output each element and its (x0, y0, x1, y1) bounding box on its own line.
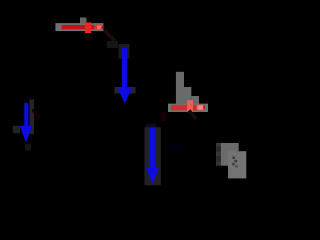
bond C3-H vertical white stick (176, 72, 184, 105)
dipole arrow D4 cross tail (187, 100, 193, 112)
dipole arrow D4 head (197, 105, 205, 111)
bond C1-C2 top horizontal white stick (55, 23, 103, 31)
dipole arrow D1 cross tail (85, 22, 91, 33)
dipole arrow D1 red shaft (62, 25, 95, 29)
left dark stick (30, 100, 35, 135)
dipole arrow D4 tip (204, 106, 206, 109)
Br label dark speck 2 (235, 160, 238, 163)
Br label bar dark segment 1 (216, 146, 221, 152)
dipole arrow D1 tip (101, 26, 103, 29)
dipole arrow D3 head (20, 126, 33, 143)
bond C2-O dark red diagonal (105, 30, 116, 42)
left faint stick below tip (25, 144, 31, 151)
crossbar bond at arrowhead D2 (115, 87, 136, 94)
bond C3-C4 horizontal white stick (168, 104, 208, 112)
dipole arrow D5 head (146, 168, 159, 184)
Br label block A (221, 143, 239, 166)
dipole arrow D1 head (96, 25, 102, 30)
Br label dark speck 4 (235, 165, 237, 167)
faint navy blob lower mid (168, 143, 182, 152)
faint navy dome above right stick (145, 123, 156, 129)
dipole arrow D5 blue shaft (150, 128, 156, 170)
dipole arrow D1 head highlight (97, 25, 102, 29)
left H stub bond (13, 126, 20, 134)
Br label block B (228, 151, 246, 178)
junction blob C2 (107, 41, 118, 48)
H atom stub on C1 (80, 18, 87, 24)
dipole arrow D2 head (117, 88, 132, 104)
faint dark red patch right of slab (161, 112, 167, 121)
Br label dark speck 1 (233, 157, 236, 160)
Br label dark speck 3 (232, 163, 235, 166)
Br label bar dark segment 2 (216, 156, 221, 162)
dark red bond below D4 (189, 111, 196, 120)
dipole arrow D3 blue shaft (24, 103, 28, 129)
dipole arrow D4 red shaft (171, 105, 198, 110)
dipole arrow D2 blue shaft (122, 48, 128, 90)
dipole arrow D4 head highlight (198, 105, 204, 109)
bond step 2 (184, 87, 191, 104)
dark bar of Br label (216, 143, 221, 166)
left dark red bond diagonal (33, 109, 40, 119)
dark stick above arrow D2 (119, 44, 130, 59)
dark slab behind arrow D5 (145, 127, 161, 185)
bond step 3 (191, 96, 199, 104)
